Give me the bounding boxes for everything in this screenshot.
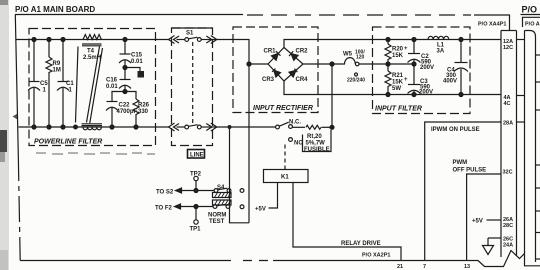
IPWM ON PULSE wire	[425, 122, 501, 261]
capacitor C1	[57, 38, 74, 130]
svg-text:0.01: 0.01	[106, 84, 118, 90]
svg-text:Rt,20: Rt,20	[307, 134, 322, 140]
resistor R21	[385, 64, 404, 97]
wire: bridge feed vertical down to S4	[248, 64, 250, 223]
svg-text:P/O A: P/O A	[525, 22, 540, 28]
svg-text:NORM: NORM	[208, 213, 226, 219]
XA2P1 pin numbers	[397, 264, 470, 270]
transformer T4 (common-mode choke)	[74, 35, 103, 130]
svg-text:S1: S1	[186, 31, 194, 37]
switch S1 dashed box	[172, 28, 213, 146]
test point TP2	[190, 172, 202, 191]
switch S4 pole 1	[213, 185, 232, 198]
right connector body	[525, 31, 536, 263]
connector XA2P1 edge	[377, 251, 540, 267]
wire: mid rail W5 to C2/C3	[359, 63, 414, 65]
INPUT RECTIFIER dashed box	[233, 27, 318, 113]
node: C16 bottom junction	[123, 90, 127, 94]
svg-text:PWM: PWM	[453, 160, 468, 166]
svg-text:2.5mH: 2.5mH	[83, 55, 101, 61]
svg-text:120: 120	[356, 55, 365, 61]
svg-text:+5V: +5V	[472, 219, 483, 225]
svg-text:15K: 15K	[392, 53, 404, 59]
TO F2 wire and arrow	[155, 204, 213, 212]
jumper W5	[343, 50, 365, 84]
+5V into connector	[472, 219, 501, 225]
board boundary left edge	[15, 15, 18, 156]
relay K1	[264, 170, 309, 183]
svg-text:5%,7W: 5%,7W	[306, 141, 326, 147]
svg-text:1: 1	[43, 88, 47, 94]
capacitor C16	[106, 68, 131, 92]
test point TP1	[190, 208, 202, 232]
resistor R9	[46, 38, 61, 130]
PWM OFF PULSE wire	[467, 174, 501, 261]
left gutter strip	[0, 0, 9, 270]
LINE label box	[188, 150, 205, 159]
svg-text:P/O: P/O	[522, 5, 538, 15]
wire: bottom rail from S1 to NC contact	[217, 126, 276, 128]
svg-text:CR1: CR1	[264, 49, 277, 55]
svg-text:CR4: CR4	[296, 77, 309, 83]
svg-text:TO F2: TO F2	[155, 206, 173, 212]
svg-text:POWERLINE FILTER: POWERLINE FILTER	[34, 139, 102, 146]
svg-text:W5: W5	[343, 52, 353, 58]
svg-text:IPWM ON PULSE: IPWM ON PULSE	[431, 127, 480, 133]
svg-text:15K: 15K	[392, 80, 404, 86]
svg-text:1: 1	[69, 88, 73, 94]
svg-text:R26: R26	[138, 103, 150, 109]
node: bridge AC feed junction	[247, 62, 251, 66]
svg-text:R20: R20	[392, 47, 404, 53]
dashed actuator line NO to K1	[284, 145, 286, 170]
svg-text:INPUT FILTER: INPUT FILTER	[375, 106, 422, 113]
wire: bridge top node to +DC top rail	[284, 40, 501, 48]
svg-text:INPUT RECTIFIER: INPUT RECTIFIER	[253, 105, 313, 112]
svg-text:+: +	[404, 77, 408, 83]
svg-text:OFF PULSE: OFF PULSE	[453, 168, 487, 174]
board boundary bottom edge	[20, 260, 231, 262]
capacitor C2 (electrolytic)	[404, 38, 434, 72]
svg-text:4C: 4C	[504, 101, 511, 107]
capacitor C15	[119, 38, 143, 68]
svg-text:TP1: TP1	[190, 227, 202, 233]
svg-text:N.C.: N.C.	[289, 120, 301, 126]
svg-text:+5V: +5V	[255, 207, 266, 213]
svg-text:+: +	[404, 46, 408, 52]
left margin arrow marker	[13, 114, 18, 120]
wire: K1 to relay drive	[293, 183, 401, 261]
board boundary top line (solid under title then dashed)	[15, 14, 243, 16]
svg-text:400V: 400V	[443, 79, 457, 85]
POWERLINE FILTER dashed box	[29, 29, 156, 146]
svg-text:R9: R9	[53, 61, 61, 67]
stub wires to right edge	[536, 55, 540, 259]
svg-text:13: 13	[464, 264, 470, 270]
svg-text:T4: T4	[87, 49, 95, 55]
connector XA4P1 body	[501, 31, 517, 258]
svg-text:24A: 24A	[503, 243, 513, 249]
svg-text:CR3: CR3	[262, 77, 275, 83]
svg-text:LINE: LINE	[190, 153, 204, 159]
wire: bottom AC rail (left section)	[19, 126, 170, 128]
svg-text:330: 330	[138, 109, 149, 115]
XA4P1 pin labels	[503, 39, 514, 249]
svg-text:RELAY DRIVE: RELAY DRIVE	[341, 241, 381, 247]
resistor R26	[125, 92, 150, 130]
svg-text:P/O XA2P1: P/O XA2P1	[362, 253, 390, 259]
svg-text:12C: 12C	[503, 45, 513, 51]
INPUT FILTER dashed box	[373, 27, 471, 114]
svg-text:0.01: 0.01	[131, 59, 143, 65]
svg-text:3A: 3A	[437, 49, 445, 55]
right board label P/O A	[523, 17, 540, 27]
diode CR4	[289, 70, 296, 77]
svg-text:32C: 32C	[503, 170, 513, 176]
resistor R20	[385, 38, 404, 67]
svg-text:28C: 28C	[503, 223, 513, 229]
svg-text:TO S2: TO S2	[156, 190, 174, 196]
diode CR3	[274, 70, 281, 77]
diode bridge CR1-CR4	[262, 48, 308, 84]
capacitor C4	[443, 38, 468, 97]
capacitor C22	[106, 92, 138, 130]
wire: top rail from S1 to bridge corner	[217, 40, 249, 65]
diode CR1	[272, 54, 279, 61]
relay contact K1 (N.C./NO)	[276, 120, 304, 147]
svg-text:K1: K1	[281, 175, 289, 181]
svg-text:21: 21	[397, 264, 403, 270]
wire: top AC rail (left section)	[16, 39, 169, 41]
inductor L1	[428, 36, 449, 54]
ground symbol	[483, 238, 502, 255]
stub wires between connectors	[517, 40, 525, 123]
svg-text:TEST: TEST	[209, 219, 225, 225]
fusible resistor label box	[303, 130, 332, 153]
wire: feed to bridge left node	[249, 63, 268, 65]
S1 top pole contacts	[169, 36, 217, 44]
svg-text:C22: C22	[119, 103, 131, 109]
svg-text:C15: C15	[131, 53, 143, 59]
svg-text:C5: C5	[40, 81, 48, 87]
svg-text:CR2: CR2	[296, 49, 309, 55]
svg-text:200V: 200V	[420, 65, 434, 71]
svg-text:P/O A1 MAIN BOARD: P/O A1 MAIN BOARD	[15, 5, 95, 14]
switch S4 pole 2	[208, 200, 231, 225]
svg-text:FUSIBLE: FUSIBLE	[304, 147, 330, 153]
svg-text:220/240: 220/240	[347, 78, 365, 84]
svg-text:7: 7	[423, 264, 426, 270]
capacitor C3 (electrolytic)	[404, 64, 433, 97]
svg-text:R21: R21	[392, 73, 404, 79]
svg-text:C16: C16	[106, 78, 118, 84]
diode CR2	[291, 54, 298, 61]
wire + fusible resistor Rt20	[292, 62, 334, 129]
wire: S4 to AC rail and feed jog	[230, 127, 250, 223]
svg-text:200V: 200V	[419, 90, 433, 96]
wire: bridge right node to mid rail	[303, 63, 345, 65]
TO S2 wire and arrow	[156, 188, 214, 196]
wire: bridge bottom node to -DC rail	[284, 81, 501, 95]
scan smudge dashes under powerline box	[36, 153, 155, 154]
node: C15/C16 junction with terminal square	[123, 66, 144, 78]
svg-text:28A: 28A	[503, 121, 513, 127]
S4 alternate throw contacts	[240, 189, 244, 209]
S1 linkage dashed line	[192, 42, 194, 124]
+5V feed to K1	[255, 183, 278, 213]
svg-text:5W: 5W	[392, 86, 401, 92]
S1 bottom pole contacts	[169, 123, 217, 131]
svg-text:C1: C1	[66, 81, 74, 87]
svg-text:1M: 1M	[53, 68, 61, 74]
capacitor C5	[28, 38, 48, 130]
svg-text:P/O XA4P1: P/O XA4P1	[478, 22, 506, 28]
